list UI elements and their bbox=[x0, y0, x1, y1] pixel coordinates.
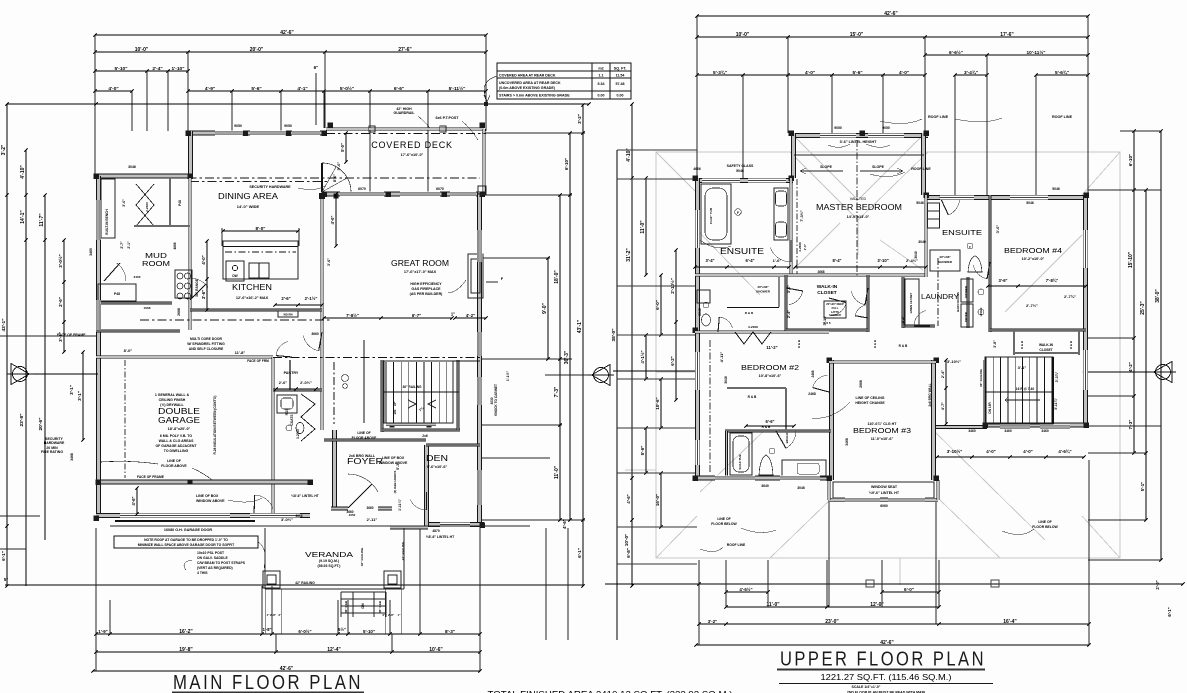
svg-text:3640: 3640 bbox=[761, 484, 769, 488]
svg-text:1.1: 1.1 bbox=[599, 74, 604, 78]
svg-text:36" RAILING: 36" RAILING bbox=[360, 547, 364, 566]
svg-text:ROOF LINE: ROOF LINE bbox=[911, 167, 931, 171]
svg-text:43'-1": 43'-1" bbox=[1, 318, 7, 331]
svg-text:4'-2": 4'-2" bbox=[1128, 362, 1133, 372]
svg-text:4'-0": 4'-0" bbox=[108, 86, 118, 92]
svg-text:2'-1½": 2'-1½" bbox=[305, 296, 318, 301]
svg-text:(½) DRYWALL: (½) DRYWALL bbox=[160, 403, 184, 407]
svg-text:FIRE RATING: FIRE RATING bbox=[41, 450, 63, 454]
svg-text:LINE OF BOX: LINE OF BOX bbox=[196, 494, 219, 498]
svg-text:2'-6": 2'-6" bbox=[803, 243, 807, 250]
svg-text:12'-6"x16'-2" MAX: 12'-6"x16'-2" MAX bbox=[236, 296, 269, 300]
svg-text:WINDOW ABOVE: WINDOW ABOVE bbox=[379, 461, 408, 465]
svg-text:31'-2": 31'-2" bbox=[626, 248, 632, 262]
svg-text:36" RAILING: 36" RAILING bbox=[402, 385, 422, 389]
svg-text:DRYER: DRYER bbox=[964, 312, 968, 322]
svg-text:6070: 6070 bbox=[358, 187, 366, 191]
svg-text:1'-6": 1'-6" bbox=[773, 258, 782, 263]
svg-text:3660: 3660 bbox=[346, 510, 353, 514]
svg-text:40"x36": 40"x36" bbox=[939, 255, 951, 259]
svg-text:WALK-IN: WALK-IN bbox=[817, 284, 838, 290]
svg-text:½8'-6" LINTEL HT: ½8'-6" LINTEL HT bbox=[426, 535, 455, 539]
svg-text:6'-1": 6'-1" bbox=[577, 548, 582, 558]
svg-text:4'-0": 4'-0" bbox=[330, 216, 335, 225]
svg-text:4'-6": 4'-6" bbox=[626, 494, 631, 503]
svg-text:4'-6¾": 4'-6¾" bbox=[1058, 449, 1071, 454]
svg-text:MULTI CORE DOOR: MULTI CORE DOOR bbox=[190, 337, 223, 341]
svg-text:4'-11": 4'-11" bbox=[719, 352, 724, 363]
svg-text:SHOWER: SHOWER bbox=[756, 290, 771, 294]
svg-text:5'-0": 5'-0" bbox=[336, 162, 341, 171]
svg-text:3'-4¾": 3'-4¾" bbox=[964, 69, 978, 75]
svg-text:3660: 3660 bbox=[366, 506, 373, 510]
svg-text:4870: 4870 bbox=[432, 529, 440, 533]
svg-text:6'-0": 6'-0" bbox=[655, 300, 660, 310]
svg-text:SOAK TUB: SOAK TUB bbox=[738, 454, 742, 469]
svg-text:4'-9": 4'-9" bbox=[205, 86, 215, 92]
svg-text:2'-7½": 2'-7½" bbox=[1026, 303, 1038, 308]
svg-text:1'-8": 1'-8" bbox=[263, 627, 272, 632]
svg-text:FLOOR BELOW: FLOOR BELOW bbox=[711, 522, 737, 526]
svg-text:1221.27 SQ.FT. (115.46 SQ.M.): 1221.27 SQ.FT. (115.46 SQ.M.) bbox=[821, 673, 952, 682]
svg-text:2'-4½": 2'-4½" bbox=[906, 258, 918, 263]
svg-text:½9'-6" LINTEL HT: ½9'-6" LINTEL HT bbox=[869, 491, 900, 495]
svg-text:2'-0½": 2'-0½" bbox=[300, 380, 312, 385]
svg-text:38'-0": 38'-0" bbox=[611, 328, 617, 341]
svg-text:2'-4": 2'-4" bbox=[941, 370, 945, 378]
svg-text:3'-6": 3'-6" bbox=[201, 290, 206, 299]
svg-text:KNOCK TO CABINET: KNOCK TO CABINET bbox=[494, 384, 498, 416]
svg-text:36'-3": 36'-3" bbox=[564, 350, 570, 364]
svg-text:2668: 2668 bbox=[817, 270, 824, 274]
svg-text:UP: UP bbox=[393, 401, 397, 406]
svg-text:LINE OF BOX: LINE OF BOX bbox=[382, 456, 405, 460]
svg-text:3'-0": 3'-0" bbox=[995, 225, 1000, 234]
svg-text:3'-2": 3'-2" bbox=[1, 144, 7, 155]
svg-text:42" RAILING: 42" RAILING bbox=[295, 581, 315, 585]
svg-text:7'-8½": 7'-8½" bbox=[346, 313, 359, 318]
svg-text:SECURITY HARDWARE: SECURITY HARDWARE bbox=[249, 185, 291, 189]
svg-text:5046: 5046 bbox=[916, 201, 924, 205]
svg-text:4'-7": 4'-7" bbox=[941, 402, 945, 410]
svg-text:43'-1": 43'-1" bbox=[577, 319, 583, 333]
svg-text:23'-8": 23'-8" bbox=[19, 413, 25, 426]
svg-text:16 R @ 7.40: 16 R @ 7.40 bbox=[1016, 387, 1035, 391]
svg-text:4'-6": 4'-6" bbox=[562, 519, 567, 529]
svg-text:3468: 3468 bbox=[70, 453, 74, 461]
svg-text:6'-8": 6'-8" bbox=[626, 548, 631, 558]
svg-text:DINING AREA: DINING AREA bbox=[218, 192, 279, 201]
svg-text:4'-0": 4'-0" bbox=[986, 449, 995, 454]
svg-text:COVERED AREA AT REAR DECK: COVERED AREA AT REAR DECK bbox=[499, 74, 556, 78]
svg-text:BEDROOM #4: BEDROOM #4 bbox=[1004, 246, 1062, 255]
svg-text:ROOF LINE: ROOF LINE bbox=[1052, 115, 1073, 119]
svg-text:3-2068: 3-2068 bbox=[748, 325, 758, 329]
svg-text:10'-2"x10'-0": 10'-2"x10'-0" bbox=[1022, 257, 1045, 261]
svg-text:FLOOR ABOVE: FLOOR ABOVE bbox=[161, 464, 187, 468]
svg-text:2'-4": 2'-4" bbox=[787, 310, 791, 318]
svg-text:3'-10: 3'-10 bbox=[822, 316, 827, 326]
svg-text:2468: 2468 bbox=[808, 392, 816, 396]
svg-text:5046: 5046 bbox=[736, 169, 744, 173]
svg-text:11'-7": 11'-7" bbox=[39, 213, 45, 227]
svg-text:2'-6": 2'-6" bbox=[279, 380, 288, 385]
svg-text:P48: P48 bbox=[114, 292, 120, 296]
svg-text:2468: 2468 bbox=[811, 370, 815, 377]
svg-text:8'-3": 8'-3" bbox=[445, 629, 455, 634]
svg-text:5'-6¾": 5'-6¾" bbox=[1055, 69, 1069, 75]
svg-text:WINDOW SEAT: WINDOW SEAT bbox=[871, 485, 898, 489]
svg-text:11'-0": 11'-0" bbox=[766, 602, 780, 608]
svg-text:3016: 3016 bbox=[295, 514, 302, 518]
svg-text:6'-2": 6'-2" bbox=[670, 356, 675, 365]
svg-text:5.34: 5.34 bbox=[598, 82, 605, 86]
svg-text:ROOM: ROOM bbox=[142, 259, 170, 268]
svg-text:3'-6": 3'-6" bbox=[998, 278, 1007, 283]
svg-text:30" RANGE: 30" RANGE bbox=[195, 278, 199, 297]
svg-text:WASHER: WASHER bbox=[964, 286, 968, 298]
svg-text:TOTAL FINISHED AREA 2410.12: TOTAL FINISHED AREA 2410.12 SQ.FT. (223.… bbox=[488, 690, 733, 693]
svg-text:3040: 3040 bbox=[918, 240, 926, 244]
svg-text:m2: m2 bbox=[598, 67, 603, 71]
svg-text:15'-0": 15'-0" bbox=[850, 32, 864, 38]
svg-text:16080 O.H. GARAGE DOOR: 16080 O.H. GARAGE DOOR bbox=[164, 528, 212, 532]
svg-text:3'-10": 3'-10" bbox=[877, 258, 888, 263]
svg-text:3030: 3030 bbox=[490, 397, 494, 404]
svg-text:½8'-6" LINTEL HT: ½8'-6" LINTEL HT bbox=[291, 494, 319, 498]
svg-text:3660: 3660 bbox=[311, 332, 319, 336]
svg-text:7'-8¾": 7'-8¾" bbox=[1046, 278, 1059, 283]
svg-text:6070: 6070 bbox=[436, 187, 444, 191]
svg-text:8'-0": 8'-0" bbox=[124, 348, 133, 353]
svg-text:3'-8": 3'-8" bbox=[993, 340, 997, 348]
svg-text:OF GARAGE ADJACENT: OF GARAGE ADJACENT bbox=[155, 444, 197, 448]
svg-text:6'-6": 6'-6" bbox=[765, 419, 774, 424]
svg-text:27'-6": 27'-6" bbox=[398, 47, 412, 53]
svg-text:VERANDA: VERANDA bbox=[305, 550, 353, 559]
svg-text:SHOWER: SHOWER bbox=[938, 260, 953, 264]
svg-text:6060: 6060 bbox=[880, 504, 888, 508]
svg-text:WD RM: WD RM bbox=[283, 313, 292, 317]
svg-text:P48: P48 bbox=[178, 200, 182, 206]
svg-text:3'-1": 3'-1" bbox=[69, 385, 74, 395]
svg-text:4868: 4868 bbox=[173, 242, 177, 249]
svg-text:9'-0": 9'-0" bbox=[542, 302, 548, 313]
svg-text:10x10 PSL POST: 10x10 PSL POST bbox=[197, 551, 225, 555]
svg-text:12'-0": 12'-0" bbox=[870, 602, 884, 608]
svg-text:42'-6": 42'-6" bbox=[280, 666, 294, 672]
svg-text:SAFETY GLASS: SAFETY GLASS bbox=[727, 164, 754, 168]
svg-text:17'-6"x17'-0" MAX: 17'-6"x17'-0" MAX bbox=[404, 270, 437, 274]
svg-text:R & B: R & B bbox=[797, 339, 801, 348]
svg-text:3'-10½": 3'-10½" bbox=[947, 359, 961, 364]
svg-text:5'-6": 5'-6" bbox=[251, 86, 261, 92]
svg-text:2x6: 2x6 bbox=[422, 434, 428, 438]
svg-text:9050: 9050 bbox=[284, 124, 292, 128]
svg-text:FLOOR ABOVE: FLOOR ABOVE bbox=[352, 436, 377, 440]
svg-text:(98.93 SQ.FT.): (98.93 SQ.FT.) bbox=[318, 564, 341, 568]
svg-text:3046: 3046 bbox=[724, 376, 728, 384]
svg-text:10'-8"x10'-6": 10'-8"x10'-6" bbox=[759, 374, 782, 378]
svg-text:9'-6"x10'-6": 9'-6"x10'-6" bbox=[427, 465, 448, 469]
svg-text:57.48: 57.48 bbox=[616, 82, 625, 86]
svg-text:3'-6": 3'-6" bbox=[327, 258, 331, 266]
svg-text:1668: 1668 bbox=[144, 306, 151, 310]
svg-text:TO DWELLING: TO DWELLING bbox=[164, 449, 189, 453]
svg-text:(6) R&B HOOKS: (6) R&B HOOKS bbox=[393, 471, 397, 494]
svg-text:BIFOLD: BIFOLD bbox=[785, 433, 789, 444]
svg-text:42'-6": 42'-6" bbox=[884, 11, 898, 17]
svg-text:W/ SPANDREL FITTING: W/ SPANDREL FITTING bbox=[187, 342, 225, 346]
svg-text:3'-6": 3'-6" bbox=[122, 199, 126, 207]
svg-text:4'-0": 4'-0" bbox=[201, 255, 206, 264]
svg-text:MASTER BEDROOM: MASTER BEDROOM bbox=[816, 203, 902, 212]
svg-text:4'-1": 4'-1" bbox=[297, 86, 307, 92]
svg-text:R & B: R & B bbox=[748, 395, 757, 399]
svg-text:3'-10½": 3'-10½" bbox=[947, 449, 963, 454]
svg-text:3'-0½": 3'-0½" bbox=[281, 517, 293, 522]
svg-text:LINE OF: LINE OF bbox=[717, 517, 730, 521]
svg-text:LINEN: LINEN bbox=[979, 308, 983, 317]
svg-text:WALL & CLG AREAS: WALL & CLG AREAS bbox=[159, 439, 194, 443]
svg-text:5'-0½": 5'-0½" bbox=[340, 85, 354, 92]
svg-text:16'-0": 16'-0" bbox=[655, 494, 660, 506]
svg-text:GAS FIREPLACE: GAS FIREPLACE bbox=[411, 287, 441, 291]
svg-text:ENSUITE: ENSUITE bbox=[942, 228, 982, 237]
svg-text:6'-6½": 6'-6½" bbox=[949, 49, 963, 55]
svg-text:3046: 3046 bbox=[797, 486, 805, 490]
svg-text:3'-0½": 3'-0½" bbox=[57, 254, 63, 267]
svg-text:2'-0": 2'-0" bbox=[1155, 580, 1160, 589]
svg-text:SLOPE: SLOPE bbox=[872, 165, 885, 169]
svg-text:COVERED DECK: COVERED DECK bbox=[371, 140, 453, 150]
svg-text:NOTE ROOF AT GARAGE TO BE DROP: NOTE ROOF AT GARAGE TO BE DROPPED 1'-0" … bbox=[144, 538, 228, 542]
svg-text:3'-1": 3'-1" bbox=[77, 391, 82, 401]
svg-text:4'-2": 4'-2" bbox=[466, 313, 475, 318]
svg-text:10'-0": 10'-0" bbox=[135, 47, 149, 53]
svg-text:4'-10": 4'-10" bbox=[20, 165, 26, 179]
svg-text:1 GENERAL WALL &: 1 GENERAL WALL & bbox=[155, 393, 190, 397]
svg-text:17'-6"x10'-0": 17'-6"x10'-0" bbox=[401, 153, 424, 157]
svg-text:FACE OF FRAME: FACE OF FRAME bbox=[137, 475, 165, 479]
svg-text:GUARDRAIL: GUARDRAIL bbox=[394, 111, 416, 115]
svg-text:6'-1": 6'-1" bbox=[1, 551, 6, 561]
svg-text:2x6 BRG WALL: 2x6 BRG WALL bbox=[928, 383, 932, 406]
svg-text:7'-3½": 7'-3½" bbox=[800, 210, 804, 222]
svg-text:9050: 9050 bbox=[834, 126, 842, 130]
svg-text:3'-2": 3'-2" bbox=[708, 619, 717, 624]
svg-text:4'-0": 4'-0" bbox=[1023, 449, 1032, 454]
svg-text:R & B: R & B bbox=[873, 339, 877, 348]
svg-text:PANTRY: PANTRY bbox=[284, 371, 299, 375]
svg-text:LAUNDRY: LAUNDRY bbox=[921, 292, 959, 301]
svg-text:7'-3": 7'-3" bbox=[1128, 420, 1133, 430]
svg-text:3'-6" LINTEL HEIGHT: 3'-6" LINTEL HEIGHT bbox=[840, 140, 878, 144]
svg-text:3468: 3468 bbox=[845, 438, 849, 446]
svg-text:(VERT AS REQUIRED): (VERT AS REQUIRED) bbox=[197, 566, 233, 570]
svg-text:3'-2": 3'-2" bbox=[577, 114, 582, 124]
svg-text:2668: 2668 bbox=[859, 380, 863, 388]
svg-text:DEN: DEN bbox=[426, 454, 448, 463]
svg-text:R & B: R & B bbox=[1069, 340, 1073, 349]
svg-text:23'-0": 23'-0" bbox=[825, 619, 839, 625]
svg-text:F: F bbox=[969, 245, 971, 249]
svg-text:R & B: R & B bbox=[1020, 340, 1024, 349]
svg-text:5'-10": 5'-10" bbox=[363, 629, 375, 634]
svg-text:FLOOR BELOW: FLOOR BELOW bbox=[1032, 525, 1058, 529]
svg-text:BARN DOORS: BARN DOORS bbox=[956, 292, 960, 312]
svg-text:3460: 3460 bbox=[134, 275, 141, 279]
svg-text:2x6 BRG WALL: 2x6 BRG WALL bbox=[349, 454, 376, 458]
svg-text:2'-6": 2'-6" bbox=[281, 296, 290, 301]
svg-text:5'-6": 5'-6" bbox=[640, 446, 645, 456]
svg-text:8'-0": 8'-0" bbox=[256, 226, 266, 231]
svg-text:CEILING FINISH: CEILING FINISH bbox=[159, 398, 186, 402]
svg-text:6'-0½": 6'-0½" bbox=[298, 629, 311, 634]
svg-text:6'-4": 6'-4" bbox=[745, 258, 754, 263]
svg-text:25'-3": 25'-3" bbox=[1140, 301, 1146, 315]
svg-text:3'-6": 3'-6" bbox=[787, 285, 791, 293]
svg-text:5½": 5½" bbox=[338, 627, 346, 632]
svg-text:3'-3¾": 3'-3¾" bbox=[1055, 371, 1059, 382]
svg-text:MINIMIZE WALL SPACE ABOVE GARA: MINIMIZE WALL SPACE ABOVE GARAGE DOOR TO… bbox=[138, 543, 235, 547]
svg-text:(9.19 SQ.M.): (9.19 SQ.M.) bbox=[319, 559, 339, 563]
svg-text:B'-0": B'-0" bbox=[333, 174, 337, 182]
svg-text:6 MIL POLY V.B. TO: 6 MIL POLY V.B. TO bbox=[160, 434, 193, 438]
svg-text:14'-0" WIDE: 14'-0" WIDE bbox=[237, 204, 260, 209]
svg-text:1'-11¼": 1'-11¼" bbox=[398, 499, 402, 511]
svg-text:R & B: R & B bbox=[745, 311, 754, 315]
svg-text:10'-6": 10'-6" bbox=[429, 647, 443, 653]
svg-text:6'-1": 6'-1" bbox=[1167, 607, 1172, 616]
svg-text:ENSUITE: ENSUITE bbox=[720, 247, 764, 256]
svg-text:2'-6": 2'-6" bbox=[58, 297, 63, 307]
svg-text:LINE OF: LINE OF bbox=[1038, 520, 1051, 524]
svg-text:COATS: COATS bbox=[290, 415, 294, 426]
svg-text:9050: 9050 bbox=[882, 126, 890, 130]
svg-text:HARDWARE: HARDWARE bbox=[44, 441, 65, 445]
svg-text:CLOSET: CLOSET bbox=[817, 290, 837, 296]
svg-text:LINEN CLOSET: LINEN CLOSET bbox=[909, 292, 913, 313]
svg-text:UNCOVERED AREA AT REAR DECK: UNCOVERED AREA AT REAR DECK bbox=[499, 81, 561, 85]
svg-text:RDS: RDS bbox=[285, 409, 289, 416]
svg-text:4'-0": 4'-0" bbox=[900, 315, 905, 324]
svg-text:36" RAILING: 36" RAILING bbox=[979, 368, 983, 387]
svg-text:AND SELF CLOSURE: AND SELF CLOSURE bbox=[189, 347, 224, 351]
svg-text:16'-4": 16'-4" bbox=[1003, 619, 1017, 625]
svg-text:R-28 INSULATION BETWEEN (CONT': R-28 INSULATION BETWEEN (CONT'D) bbox=[213, 396, 217, 455]
svg-text:12'-4": 12'-4" bbox=[327, 647, 341, 653]
svg-text:6'-10": 6'-10" bbox=[564, 158, 569, 170]
svg-text:C/W BEAM TO POST STRAPS: C/W BEAM TO POST STRAPS bbox=[197, 561, 246, 565]
svg-text:(AS PER BUILDER): (AS PER BUILDER) bbox=[410, 292, 444, 296]
svg-text:17'-6": 17'-6" bbox=[1000, 32, 1014, 38]
svg-text:4'-10": 4'-10" bbox=[626, 148, 632, 162]
svg-text:GREAT ROOM: GREAT ROOM bbox=[391, 259, 449, 268]
svg-text:1'-9": 1'-9" bbox=[98, 629, 107, 634]
svg-text:3460: 3460 bbox=[968, 429, 976, 433]
svg-text:2'-1": 2'-1" bbox=[127, 241, 131, 249]
svg-text:5'-1": 5'-1" bbox=[1140, 482, 1145, 491]
svg-text:ROOF LINE: ROOF LINE bbox=[928, 115, 949, 119]
svg-text:2-2668: 2-2668 bbox=[798, 242, 802, 252]
svg-text:3046: 3046 bbox=[128, 165, 136, 169]
svg-text:UPPER FLOOR PLAN: UPPER FLOOR PLAN bbox=[780, 649, 986, 671]
svg-text:3460: 3460 bbox=[89, 248, 93, 256]
svg-text:19'-8": 19'-8" bbox=[179, 647, 193, 653]
svg-text:2'-8": 2'-8" bbox=[388, 613, 395, 617]
svg-text:11'-8": 11'-8" bbox=[235, 350, 246, 355]
svg-text:10'-6": 10'-6" bbox=[655, 397, 660, 409]
svg-text:WALK-IN: WALK-IN bbox=[1039, 343, 1054, 347]
svg-text:3'-1": 3'-1" bbox=[1018, 365, 1027, 370]
svg-text:2'-7¾": 2'-7¾" bbox=[1064, 294, 1076, 299]
svg-text:SHOWER: SHOWER bbox=[829, 313, 841, 317]
svg-text:4 THIS: 4 THIS bbox=[197, 571, 208, 575]
svg-text:3'-4": 3'-4" bbox=[705, 258, 714, 263]
svg-text:LINE OF: LINE OF bbox=[167, 459, 182, 463]
svg-text:BEDROOM #3: BEDROOM #3 bbox=[853, 426, 911, 435]
svg-text:STAIRS > 0.6m ABOVE EXISTING G: STAIRS > 0.6m ABOVE EXISTING GRADE bbox=[499, 94, 570, 98]
svg-text:2046: 2046 bbox=[698, 308, 702, 316]
svg-text:4'-1½": 4'-1½" bbox=[640, 350, 645, 363]
svg-text:2'-8": 2'-8" bbox=[270, 613, 277, 617]
svg-text:FACE OF FRM: FACE OF FRM bbox=[247, 359, 269, 363]
svg-text:11'-0"x10'-6": 11'-0"x10'-6" bbox=[871, 437, 894, 441]
svg-text:0.00: 0.00 bbox=[598, 94, 605, 98]
svg-text:6'-0": 6'-0" bbox=[904, 587, 914, 592]
svg-text:LINE OF CEILING: LINE OF CEILING bbox=[856, 396, 885, 400]
svg-text:DN: DN bbox=[361, 603, 365, 609]
svg-text:DW: DW bbox=[232, 274, 237, 278]
svg-text:DN 16R: DN 16R bbox=[988, 402, 992, 414]
svg-text:36" R&B: 36" R&B bbox=[378, 600, 382, 613]
svg-text:11'-0": 11'-0" bbox=[554, 465, 560, 479]
svg-text:4666: 4666 bbox=[693, 167, 701, 171]
svg-text:4'-0": 4'-0" bbox=[899, 70, 909, 75]
svg-text:2-2060: 2-2060 bbox=[145, 202, 149, 212]
svg-text:ROOF LINE: ROOF LINE bbox=[727, 543, 746, 547]
svg-text:42'-6": 42'-6" bbox=[280, 30, 294, 36]
svg-text:7'-3": 7'-3" bbox=[554, 386, 560, 397]
svg-text:20"x20" DEEP: 20"x20" DEEP bbox=[826, 302, 844, 306]
svg-text:15'-10": 15'-10" bbox=[1128, 251, 1134, 268]
svg-text:WINDOW ABOVE: WINDOW ABOVE bbox=[196, 499, 225, 503]
svg-text:R & B: R & B bbox=[899, 344, 908, 348]
svg-text:11.54: 11.54 bbox=[616, 74, 625, 78]
svg-text:10'-0": 10'-0" bbox=[736, 32, 750, 38]
svg-text:5": 5" bbox=[4, 577, 8, 582]
svg-text:6": 6" bbox=[314, 65, 319, 70]
svg-text:1": 1" bbox=[451, 312, 455, 317]
svg-text:9050: 9050 bbox=[234, 124, 242, 128]
svg-text:42'-6": 42'-6" bbox=[880, 640, 894, 646]
svg-text:14'-0"x13'-0": 14'-0"x13'-0" bbox=[847, 215, 870, 219]
svg-text:DOUBLE: DOUBLE bbox=[158, 407, 200, 416]
svg-text:18'-0": 18'-0" bbox=[554, 270, 560, 284]
svg-text:2'-4": 2'-4" bbox=[152, 66, 162, 72]
svg-text:CLOSET: CLOSET bbox=[1039, 348, 1052, 352]
svg-text:5'-3¾": 5'-3¾" bbox=[713, 69, 727, 75]
svg-text:HEIGHT CHANGE: HEIGHT CHANGE bbox=[855, 401, 885, 405]
svg-text:6'-6": 6'-6" bbox=[394, 86, 404, 92]
svg-text:FACE OF FRAME: FACE OF FRAME bbox=[57, 333, 86, 337]
svg-text:1'-1½": 1'-1½" bbox=[506, 371, 510, 382]
svg-text:10'-0": 10'-0" bbox=[624, 534, 629, 546]
svg-text:4'-0": 4'-0" bbox=[805, 70, 815, 75]
svg-text:1'-10": 1'-10" bbox=[171, 66, 184, 72]
svg-text:10'-11½": 10'-11½" bbox=[1027, 49, 1046, 55]
